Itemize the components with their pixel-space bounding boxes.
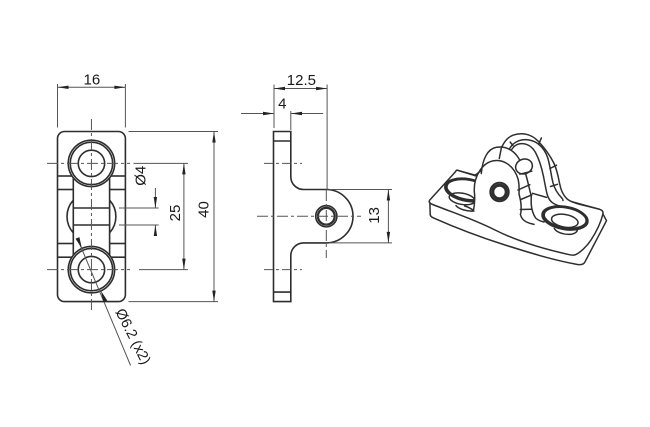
- svg-text:4: 4: [278, 96, 286, 113]
- svg-text:40: 40: [195, 201, 212, 218]
- svg-text:16: 16: [84, 72, 101, 89]
- svg-text:Ø4: Ø4: [133, 166, 150, 186]
- svg-text:12.5: 12.5: [287, 72, 316, 89]
- svg-text:13: 13: [366, 207, 383, 224]
- svg-text:25: 25: [167, 205, 184, 222]
- svg-text:Ø6.2 (x2): Ø6.2 (x2): [112, 306, 154, 367]
